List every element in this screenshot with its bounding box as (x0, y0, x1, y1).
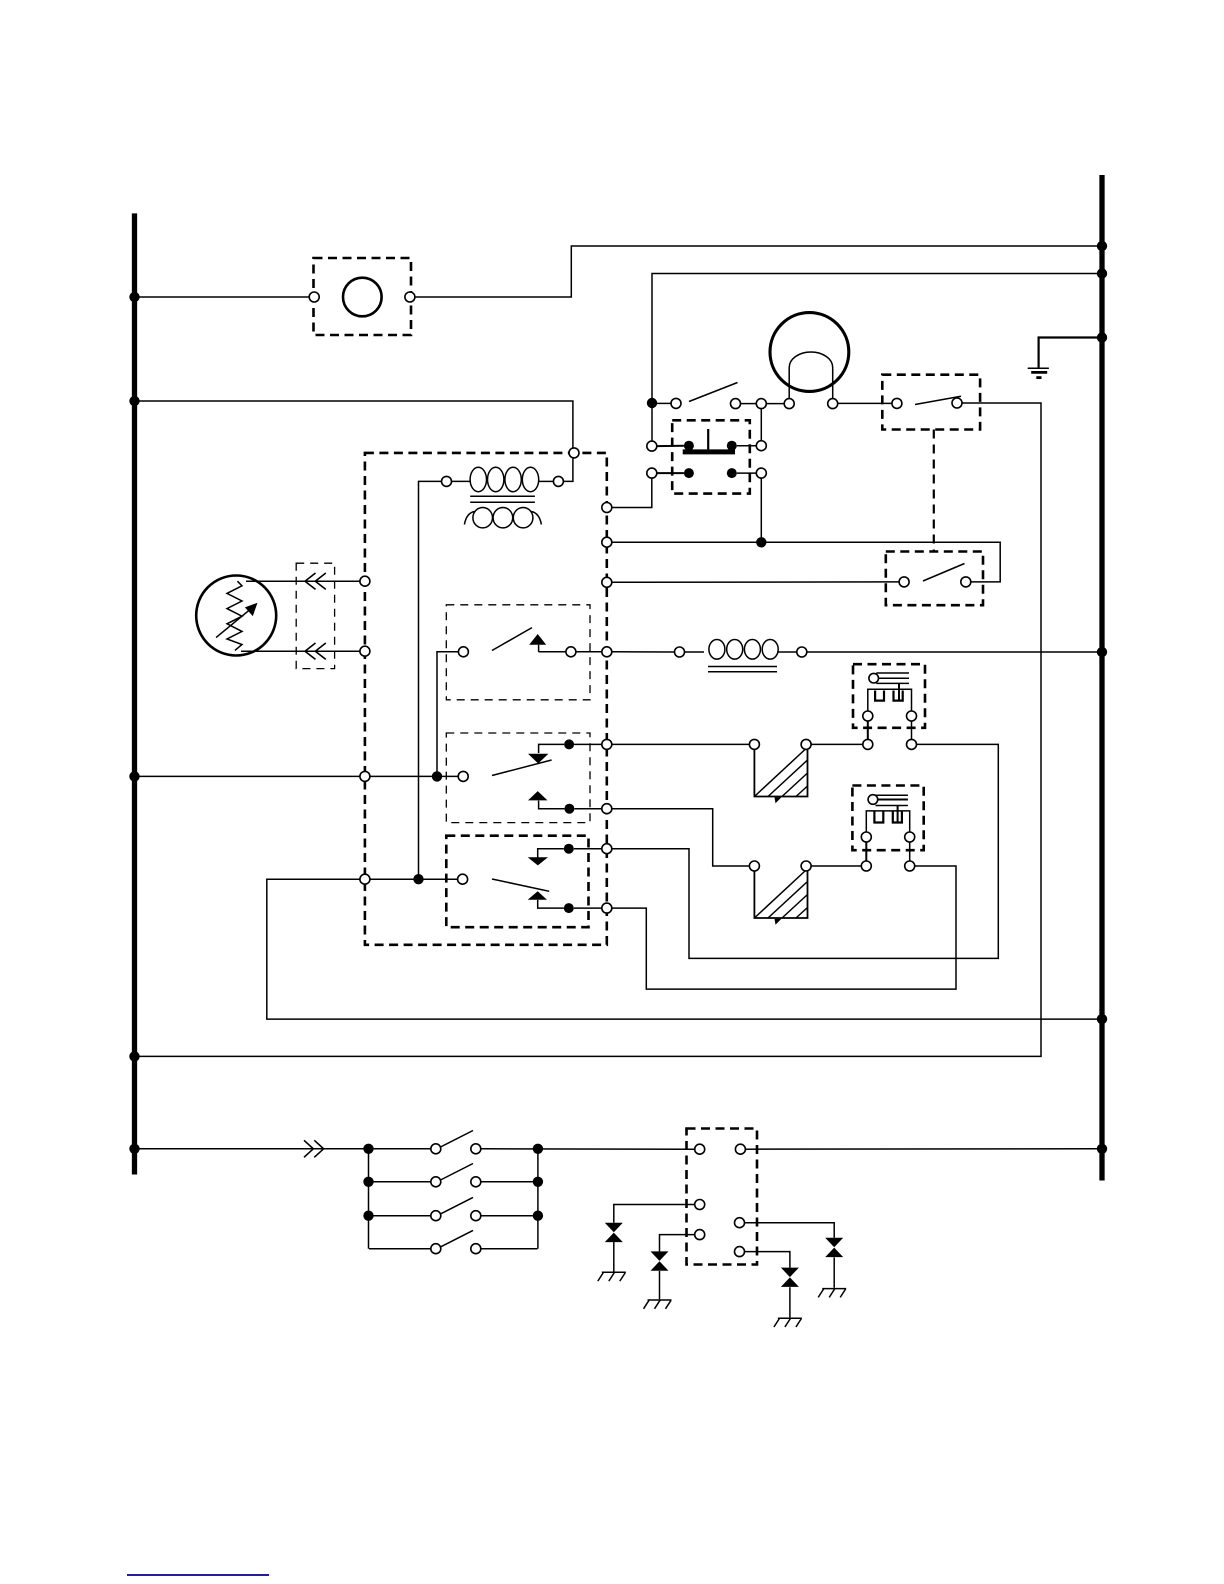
chassis ground G4 (818, 1289, 846, 1298)
terminal box edge horn (602, 503, 612, 513)
terminal bank row3 left (431, 1211, 441, 1221)
wire: diode D2 to interlock pin (660, 1235, 695, 1252)
key switch S2 blade (492, 760, 552, 776)
ignition coil T1 core (470, 495, 535, 497)
terminal SW1 left (671, 398, 681, 408)
key switch S2 enclosure (446, 733, 590, 823)
wire: S3 bottom contact to box edge (574, 907, 602, 909)
wire: accessory line from box edge to brake switch (612, 542, 1000, 582)
brake switch SW4 blade (923, 564, 965, 582)
footer blue rule (127, 1574, 269, 1576)
terminal box edge accessory (602, 537, 612, 547)
node left bus headlight feed (129, 1051, 139, 1061)
diode D3 (781, 1268, 799, 1287)
node bank left row3 (363, 1211, 373, 1221)
wire: stator coil to right bus (807, 651, 1102, 653)
wire: bank row 4 left (369, 1248, 431, 1250)
terminal module M1 left (749, 739, 759, 749)
wire: horn button lower left to box edge circle (612, 478, 652, 507)
node S3 magneto junction (413, 874, 423, 884)
spark plug SP1 internals (868, 673, 912, 739)
terminal box edge stator (602, 647, 612, 657)
diode D4 (825, 1238, 843, 1257)
terminal SP1 top (869, 673, 879, 683)
ignition module M1 hatched body (754, 747, 807, 803)
node bank right row3 (533, 1211, 543, 1221)
wire: horn button pin 1 (657, 445, 684, 447)
terminal SP1 inner right (907, 711, 917, 721)
terminal horn button lower left (647, 468, 657, 478)
terminal SW3 right (952, 398, 962, 408)
key switch S3 lower arrow (528, 891, 547, 899)
node left bus key bank feed (129, 1144, 139, 1154)
wire: S2 NO contact to box edge (574, 808, 601, 810)
chassis ground G1 (598, 1272, 626, 1281)
ignition coil T1 secondary winding (464, 508, 541, 528)
wire: diode D2 to ground (659, 1271, 661, 1299)
mechanical link seat/brake switches (933, 430, 935, 552)
wire: light switch common down to horn button (651, 403, 653, 441)
connector J1 chevrons top (305, 573, 326, 589)
terminal S2 common (458, 771, 468, 781)
key switch bank blade row 2 (441, 1164, 474, 1181)
terminal module M1 right (801, 739, 811, 749)
circuit breaker CB1 element (343, 278, 382, 317)
terminal SW4 left (899, 577, 909, 587)
key switch S3 blade (492, 879, 549, 891)
right bus (ground/return feed) (1099, 175, 1104, 1181)
wire: horn button pin 4 (737, 472, 757, 474)
terminal module M2 right (801, 861, 811, 871)
terminal lamp chain b (756, 399, 766, 409)
pin U1 top right (735, 1144, 745, 1154)
diode D2 (651, 1251, 669, 1270)
node S2 NC contact (564, 739, 574, 749)
terminal ignition box edge magneto (360, 874, 370, 884)
seat switch SW3 blade (915, 396, 961, 404)
terminal module M2 left (749, 861, 759, 871)
terminal lamp chain a (731, 399, 741, 409)
wire: magneto kill line from S3 to right bus (267, 879, 1102, 1019)
wire: left bus to key switch bank row 1 (135, 1148, 431, 1150)
terminal bank row2 right (471, 1177, 481, 1187)
wire: spark plug SP1 return loop (612, 744, 999, 958)
wire: box edge to brake switch left contact (612, 581, 899, 583)
terminal bank row1 right (471, 1144, 481, 1154)
pin U1 mid left (695, 1200, 705, 1210)
terminal SP2 outer left (861, 861, 871, 871)
node S3 bottom contact (564, 903, 574, 913)
wire: horn button pin 2 (737, 445, 757, 447)
wire: S2 NC contact line (539, 744, 565, 753)
wire: interlock pin to diode D4 (745, 1223, 835, 1238)
pin U1 top left (695, 1144, 705, 1154)
wire: interlock module to right bus (745, 1148, 1102, 1150)
node horn button pin3 (684, 468, 694, 478)
node S2 NO contact (564, 804, 574, 814)
terminal SP2 top (868, 795, 878, 805)
terminal stator coil right (797, 647, 807, 657)
horn button SW2 bar (683, 449, 735, 454)
wire: S3 bottom contact line (538, 900, 564, 908)
wire: interlock pin to diode D3 (745, 1252, 790, 1268)
terminal SW4 right (961, 577, 971, 587)
terminal S1 common (458, 647, 468, 657)
terminal bank row3 right (471, 1211, 481, 1221)
wire: bank row 2 right (481, 1181, 538, 1183)
fuel sender R1 wiper arrow (216, 608, 251, 637)
node horn button pin1 (684, 441, 694, 451)
wire: S2 NO contact line (539, 801, 565, 809)
node bank right row2 (533, 1177, 543, 1187)
wire: S1 output to stator coil line (612, 651, 675, 653)
ignition switch assembly enclosure (365, 453, 607, 945)
wire: diode D1 to interlock pin (614, 1205, 695, 1223)
terminal SP2 inner left (861, 832, 871, 842)
ignition coil T1 primary winding (452, 467, 554, 491)
wire: fuel sender top lead (246, 580, 360, 582)
key switch S1 blade (492, 628, 532, 651)
fuel sender R1 body (196, 576, 276, 656)
wire: S2 NC contact to box edge (574, 743, 602, 745)
terminal horn button upper right (756, 441, 766, 451)
terminal bank row2 left (431, 1177, 441, 1187)
wire: module M2 to spark plug SP2 (811, 865, 861, 867)
earth ground symbol (1028, 368, 1049, 377)
terminal SP2 outer right (905, 861, 915, 871)
terminal box edge brake (602, 577, 612, 587)
wire: right bus to earth ground (1039, 338, 1102, 369)
light switch SW1 blade (689, 383, 738, 402)
terminal box edge S3 bottom (602, 903, 612, 913)
terminal CB1 left (309, 292, 319, 302)
terminal bank row1 left (431, 1144, 441, 1154)
node right bus breaker return (1097, 241, 1107, 251)
connector J1 enclosure (296, 563, 334, 668)
wire: diode D4 to ground (833, 1257, 835, 1287)
key switch S3 enclosure (446, 836, 588, 928)
terminal CB1 right (405, 292, 415, 302)
wire: horn button pin 3 (657, 472, 684, 474)
terminal S1 output (566, 647, 576, 657)
wire: S1 output terminal to box edge (576, 651, 602, 653)
seat switch SW3 enclosure (882, 375, 980, 430)
pin U1 low left (695, 1230, 705, 1240)
fuel sender R1 rheostat zigzag (227, 581, 242, 650)
wire: bank row 3 left (369, 1215, 431, 1217)
wire: lamp chain segment a (741, 403, 757, 405)
wire: bank row 1 output to interlock module (481, 1148, 695, 1150)
wire: spark circuit 2 from box edge (612, 809, 750, 866)
wire: S3 top contact line (538, 849, 564, 858)
wire: fuel sender bottom lead (241, 650, 360, 652)
connector J1 chevrons bottom (305, 643, 326, 659)
wire: seat switch to headlight drop (135, 403, 1042, 1056)
left bus (battery positive feed) (132, 213, 137, 1174)
terminal bank row4 right (471, 1244, 481, 1254)
wire: stator coil line into coil (685, 651, 705, 653)
wire: diode D3 to ground (789, 1287, 791, 1317)
node bank left row1 (363, 1144, 373, 1154)
node S1/S2 common junction (432, 771, 442, 781)
terminal coil T1 right (553, 476, 563, 486)
pin U1 low right (735, 1247, 745, 1257)
terminal horn button lower right (756, 468, 766, 478)
node left bus B+ feed (129, 771, 139, 781)
key switch S1 return arrow (529, 634, 546, 645)
terminal ignition box top edge (569, 448, 579, 458)
wire: lamp chain segment b (766, 403, 784, 405)
wire: B+ line from left bus into key switch S2 (135, 775, 459, 777)
lamp L2 filament and leads (789, 352, 833, 399)
wire: module M1 to spark plug SP1 (811, 743, 863, 745)
wire: left bus to breaker CB1 (135, 296, 310, 298)
wire: bank row 4 right (481, 1248, 538, 1250)
node bank left row2 (363, 1177, 373, 1187)
wire: right bus to light switch feed (652, 274, 1102, 399)
stator coil L1 core (708, 666, 777, 668)
horn button SW2 stem (707, 429, 709, 449)
terminal horn button upper left (647, 441, 657, 451)
node right bus ground tap (1097, 332, 1107, 342)
key switch bank blade row 4 (441, 1230, 474, 1247)
terminal coil T1 left (442, 476, 452, 486)
terminal SP2 inner right (905, 832, 915, 842)
brake switch SW4 enclosure (886, 552, 983, 606)
node right bus magneto return (1097, 1014, 1107, 1024)
terminal box edge S3 top (602, 844, 612, 854)
wire: horn button lower right down to accessory line (760, 478, 762, 542)
node right bus stator return (1097, 647, 1107, 657)
diode D1 (605, 1223, 623, 1242)
node light switch common (647, 398, 657, 408)
node horn button pin2 (727, 441, 737, 451)
wire: coil primary left lead down to S3 line (419, 481, 447, 879)
pin U1 mid right (735, 1218, 745, 1228)
terminal SP1 outer right (907, 739, 917, 749)
terminal bank row4 left (431, 1244, 441, 1254)
wire: S1 arrow post to output terminal (539, 651, 566, 653)
stator coil L1 winding (709, 640, 778, 660)
wire: spark circuit 1 from box edge to module M1 (612, 743, 750, 745)
wire: bank left gang bar (368, 1149, 370, 1249)
terminal box edge spark 1 (602, 739, 612, 749)
key switch S1 enclosure (446, 605, 590, 700)
node right bus interlock return (1097, 1144, 1107, 1154)
terminal box edge spark 2 feed (602, 804, 612, 814)
connector J2 chevrons (304, 1140, 324, 1157)
terminal stator coil left (675, 647, 685, 657)
key switch S2 lower arrow (528, 791, 548, 800)
terminal ignition box edge fuel bottom (360, 646, 370, 656)
node S3 top contact (564, 844, 574, 854)
terminal SP1 outer left (863, 739, 873, 749)
key switch bank blade row 3 (441, 1197, 474, 1214)
terminal S3 common (458, 874, 468, 884)
wire: diode D1 to ground (613, 1242, 615, 1272)
wire: spark plug SP2 return loop (612, 866, 956, 989)
wire: S3 top contact to box edge (574, 848, 602, 850)
chassis ground G2 (644, 1300, 672, 1309)
wire: left bus to ignition coil primary (via top of dashed box) (135, 401, 573, 481)
terminal SW3 left (892, 398, 902, 408)
horn button SW2 enclosure (672, 420, 750, 493)
spark plug SP1 enclosure (853, 664, 925, 728)
wire: breaker CB1 to right bus top (415, 246, 1102, 297)
wire: bank row 3 right (481, 1215, 538, 1217)
terminal lamp L2 left (784, 399, 794, 409)
wire: S2 common up to S1 common (437, 652, 458, 777)
wire: bank right gang bar (537, 1149, 539, 1249)
key switch S2 upper arrow (528, 754, 548, 764)
terminal lamp L2 right (828, 399, 838, 409)
interlock module U1 enclosure (687, 1129, 758, 1265)
spark plug SP2 internals (866, 795, 909, 861)
wire: light switch to lamp chain (657, 402, 671, 404)
node left bus lamp feed (129, 292, 139, 302)
wire: lamp chain to horn button top right (760, 409, 762, 441)
terminal SP1 inner left (863, 711, 873, 721)
node horn button pin4 (727, 468, 737, 478)
node right bus light return (1097, 268, 1107, 278)
node accessory junction (756, 537, 766, 547)
lamp L2 globe (770, 313, 849, 392)
ignition module M2 hatched body (754, 869, 807, 925)
circuit breaker CB1 enclosure (314, 258, 412, 335)
wire: stator coil out of coil (778, 651, 797, 653)
terminal ignition box edge B+ (360, 771, 370, 781)
terminal ignition box edge fuel top (360, 576, 370, 586)
spark plug SP2 enclosure (852, 786, 923, 851)
wire: bank row 2 left (369, 1181, 431, 1183)
node bank right row1 (533, 1144, 543, 1154)
wire: lamp L2 to seat switch (838, 402, 892, 404)
key switch S3 upper arrow (528, 857, 548, 865)
node left bus coil feed (129, 396, 139, 406)
chassis ground G3 (774, 1318, 802, 1327)
key switch bank blade row 1 (441, 1131, 474, 1148)
